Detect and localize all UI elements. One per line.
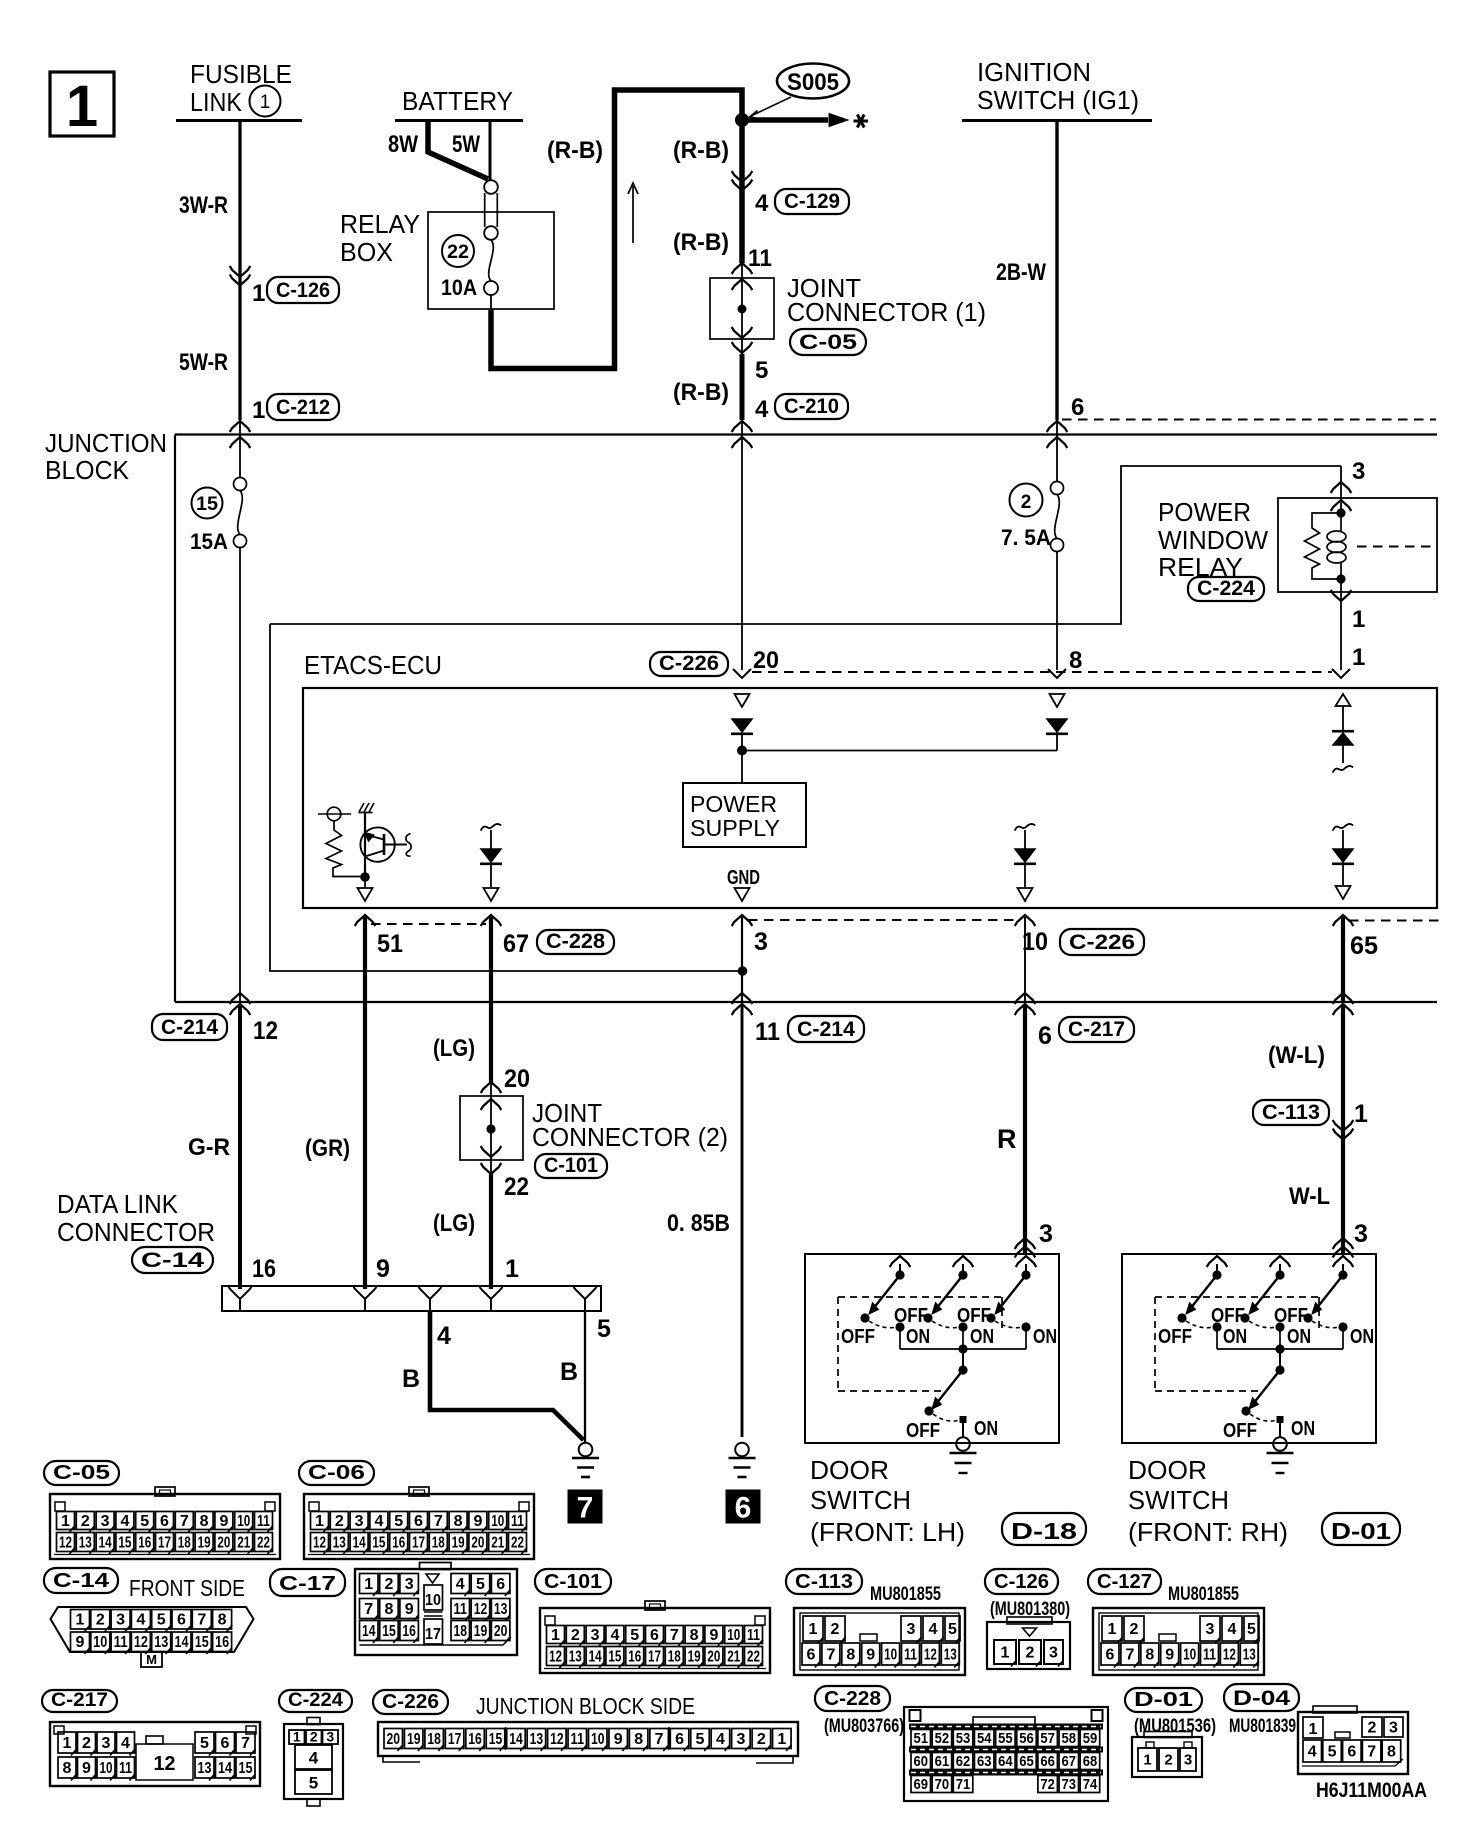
svg-text:H6J11M00AA: H6J11M00AA xyxy=(1316,1779,1427,1802)
svg-text:(LG): (LG) xyxy=(433,1035,475,1062)
ECU break squiggle pin65 lower xyxy=(1333,824,1353,830)
dashed junction boundary top xyxy=(1062,419,1436,421)
ECU output triangle pin51 xyxy=(358,888,373,901)
svg-text:1: 1 xyxy=(364,1576,373,1593)
svg-text:1: 1 xyxy=(293,1729,301,1745)
svg-text:20: 20 xyxy=(707,1648,720,1665)
svg-text:15: 15 xyxy=(608,1648,621,1665)
svg-text:1: 1 xyxy=(66,74,98,139)
svg-text:71: 71 xyxy=(956,1776,971,1793)
svg-text:12: 12 xyxy=(313,1534,326,1551)
wire W-L thick xyxy=(1341,1004,1345,1253)
svg-text:DATA LINK: DATA LINK xyxy=(57,1191,178,1219)
connector body C-228 xyxy=(904,1707,1108,1801)
svg-text:51: 51 xyxy=(914,1730,929,1747)
svg-text:8: 8 xyxy=(846,1646,855,1663)
svg-text:OFF: OFF xyxy=(1158,1326,1192,1348)
svg-text:M: M xyxy=(146,1652,157,1667)
svg-text:(GR): (GR) xyxy=(305,1135,350,1162)
connector body C-113 13pin xyxy=(794,1608,965,1675)
svg-text:14: 14 xyxy=(589,1648,602,1665)
ECU diode pin20 xyxy=(732,719,752,732)
svg-text:56: 56 xyxy=(1019,1730,1034,1747)
relay pin 1 chevron xyxy=(1331,590,1352,601)
svg-text:11: 11 xyxy=(454,1601,468,1618)
wire from fuse 15 down xyxy=(239,548,241,1003)
svg-text:64: 64 xyxy=(998,1753,1013,1770)
svg-text:OFF: OFF xyxy=(841,1326,875,1348)
connector body C-05 22pin xyxy=(50,1494,280,1559)
svg-text:C-212: C-212 xyxy=(276,396,330,419)
svg-text:15: 15 xyxy=(489,1731,503,1748)
svg-text:C-226: C-226 xyxy=(1069,931,1135,954)
svg-text:73: 73 xyxy=(1062,1776,1077,1793)
connector label C-226 bottom xyxy=(1060,929,1144,955)
svg-text:67: 67 xyxy=(503,930,529,958)
connector body C-217 xyxy=(50,1722,260,1786)
ECU resistor xyxy=(326,821,361,877)
svg-text:BATTERY: BATTERY xyxy=(402,88,513,116)
svg-text:S005: S005 xyxy=(787,69,839,96)
svg-text:C-214: C-214 xyxy=(797,1018,855,1041)
svg-text:8: 8 xyxy=(200,1513,209,1530)
svg-text:4: 4 xyxy=(716,1731,725,1748)
svg-text:5: 5 xyxy=(476,1576,485,1593)
joint connector 2 box xyxy=(460,1096,523,1160)
connector label C-05 table xyxy=(44,1461,119,1485)
svg-text:11: 11 xyxy=(119,1760,132,1777)
svg-text:11: 11 xyxy=(257,1513,270,1530)
svg-text:11: 11 xyxy=(747,1627,760,1644)
svg-text:16: 16 xyxy=(138,1534,151,1551)
svg-text:1: 1 xyxy=(1352,606,1365,633)
svg-text:2: 2 xyxy=(831,1621,840,1638)
connector label C-126 table xyxy=(985,1569,1058,1594)
svg-text:69: 69 xyxy=(914,1776,929,1793)
svg-text:C-226: C-226 xyxy=(382,1691,439,1713)
svg-text:9: 9 xyxy=(219,1513,228,1530)
wire 3 upper xyxy=(741,917,743,1002)
svg-text:11: 11 xyxy=(571,1731,585,1748)
svg-text:OFF: OFF xyxy=(1211,1305,1245,1327)
svg-text:20: 20 xyxy=(504,1065,530,1093)
svg-text:OFF: OFF xyxy=(894,1305,928,1327)
svg-text:1: 1 xyxy=(1108,1621,1117,1638)
svg-text:16: 16 xyxy=(628,1648,641,1665)
svg-text:6: 6 xyxy=(735,1492,752,1525)
fusible link cartridge xyxy=(484,180,498,194)
svg-text:5: 5 xyxy=(1247,1621,1256,1638)
connector body C-226 xyxy=(378,1722,798,1756)
fusible link number circle 1 xyxy=(250,86,281,117)
svg-text:B: B xyxy=(402,1365,420,1393)
svg-text:22: 22 xyxy=(257,1534,270,1551)
svg-text:65: 65 xyxy=(1019,1753,1034,1770)
connector body C-127 13pin xyxy=(1093,1608,1264,1675)
DLC pin Y 5 xyxy=(574,1287,597,1311)
wire R thick xyxy=(1023,1004,1027,1253)
svg-text:68: 68 xyxy=(1083,1753,1098,1770)
svg-text:8: 8 xyxy=(384,1601,393,1618)
svg-text:RELAY: RELAY xyxy=(340,211,420,239)
connector body C-17 xyxy=(355,1569,517,1655)
svg-text:21: 21 xyxy=(491,1534,504,1551)
connector label D-04 table xyxy=(1224,1684,1299,1711)
svg-text:8W: 8W xyxy=(388,131,418,158)
connector label C-212 xyxy=(267,394,339,420)
ECU diode pin10 xyxy=(1015,849,1035,862)
svg-text:65: 65 xyxy=(1350,932,1378,960)
svg-text:3: 3 xyxy=(736,1731,745,1748)
svg-text:9: 9 xyxy=(866,1646,875,1663)
svg-text:5: 5 xyxy=(140,1513,149,1530)
svg-text:C-226: C-226 xyxy=(659,652,719,675)
svg-text:16: 16 xyxy=(252,1255,276,1283)
svg-text:2: 2 xyxy=(1021,492,1032,513)
svg-text:(FRONT: RH): (FRONT: RH) xyxy=(1128,1517,1288,1547)
svg-text:5W-R: 5W-R xyxy=(179,349,228,376)
svg-text:4: 4 xyxy=(755,396,769,423)
svg-text:(R-B): (R-B) xyxy=(673,379,729,406)
section marker 7 xyxy=(568,1490,602,1523)
svg-text:BOX: BOX xyxy=(340,239,393,267)
svg-text:7: 7 xyxy=(197,1612,206,1629)
ignition bus bar xyxy=(962,119,1152,122)
door switch RH pole 1 xyxy=(1207,1256,1228,1267)
svg-text:67: 67 xyxy=(1062,1753,1077,1770)
door switch LH lower contact xyxy=(962,1349,964,1370)
wire B thick from pin4 xyxy=(430,1311,584,1440)
relay resistor xyxy=(1305,513,1342,579)
svg-text:7: 7 xyxy=(364,1601,373,1618)
svg-text:2: 2 xyxy=(335,1513,344,1530)
door switch RH common bus xyxy=(1216,1327,1218,1349)
svg-text:70: 70 xyxy=(935,1776,950,1793)
svg-text:16: 16 xyxy=(392,1534,405,1551)
wire relay pin1 down to ECU xyxy=(1340,579,1342,670)
svg-text:9: 9 xyxy=(473,1513,482,1530)
svg-text:11: 11 xyxy=(904,1646,917,1663)
svg-text:10: 10 xyxy=(100,1760,113,1777)
svg-text:1: 1 xyxy=(1001,1644,1010,1661)
svg-text:6: 6 xyxy=(1038,1022,1052,1050)
battery bus bar xyxy=(395,119,523,122)
svg-text:ON: ON xyxy=(1033,1326,1057,1348)
svg-text:C-228: C-228 xyxy=(546,930,605,953)
svg-text:14: 14 xyxy=(99,1534,112,1551)
svg-text:13: 13 xyxy=(494,1601,508,1618)
fuse 22 element xyxy=(489,240,494,281)
svg-text:22: 22 xyxy=(747,1648,760,1665)
door switch box RH xyxy=(1122,1254,1376,1443)
svg-text:ON: ON xyxy=(970,1326,994,1348)
svg-text:7: 7 xyxy=(434,1513,443,1530)
ECU diode pin67 xyxy=(481,849,501,862)
svg-text:8: 8 xyxy=(1069,647,1082,674)
svg-text:7: 7 xyxy=(241,1735,250,1752)
ECU diode pin65 up xyxy=(1332,730,1354,733)
svg-text:15: 15 xyxy=(239,1760,253,1777)
svg-text:C-17: C-17 xyxy=(279,1573,336,1595)
svg-text:15: 15 xyxy=(372,1534,385,1551)
wire inside junction from ignition xyxy=(1056,437,1058,482)
connector body D-04 xyxy=(1298,1712,1408,1774)
fusible link bus bar xyxy=(176,119,302,122)
connector label C-113 inline xyxy=(1253,1100,1329,1125)
svg-text:22: 22 xyxy=(504,1173,529,1201)
svg-text:ON: ON xyxy=(906,1326,930,1348)
svg-text:1: 1 xyxy=(252,280,265,307)
dashed connector line C-226 row xyxy=(752,671,1332,673)
svg-text:POWER: POWER xyxy=(1158,499,1251,527)
ECU transistor emitter dot xyxy=(360,872,370,882)
svg-text:2: 2 xyxy=(82,1735,91,1752)
door switch RH pole 3 xyxy=(1333,1256,1354,1267)
fuse 15 element xyxy=(234,478,247,491)
svg-text:4: 4 xyxy=(136,1612,145,1629)
door switch LH pole 1 xyxy=(890,1256,911,1267)
svg-text:C-14: C-14 xyxy=(141,1249,204,1272)
svg-text:5: 5 xyxy=(948,1621,957,1638)
svg-text:3: 3 xyxy=(116,1612,125,1629)
svg-text:3: 3 xyxy=(1354,1220,1368,1248)
svg-text:10: 10 xyxy=(237,1513,250,1530)
svg-text:17: 17 xyxy=(648,1648,661,1665)
svg-text:ON: ON xyxy=(1223,1326,1247,1348)
connector label C-210 xyxy=(775,394,848,419)
data link connector box xyxy=(222,1286,601,1311)
svg-text:1: 1 xyxy=(777,1731,786,1748)
svg-text:66: 66 xyxy=(1040,1753,1055,1770)
svg-text:13: 13 xyxy=(198,1760,212,1777)
svg-text:10: 10 xyxy=(425,1592,441,1609)
ECU input triangle pin65 up xyxy=(1336,694,1351,706)
asterisk marker xyxy=(854,120,869,123)
junction block outline xyxy=(175,433,1437,435)
svg-text:C-05: C-05 xyxy=(799,331,857,354)
connector label C-226 table xyxy=(373,1690,448,1714)
svg-text:74: 74 xyxy=(1083,1776,1098,1793)
svg-text:8: 8 xyxy=(1387,1743,1396,1760)
svg-text:61: 61 xyxy=(935,1753,950,1770)
svg-text:4: 4 xyxy=(374,1513,383,1530)
wire B from pin5 xyxy=(584,1311,586,1443)
relay internal top dot xyxy=(1336,508,1345,517)
svg-text:6: 6 xyxy=(1106,1646,1115,1663)
svg-text:12: 12 xyxy=(59,1534,72,1551)
svg-text:1: 1 xyxy=(252,397,265,424)
svg-text:C-214: C-214 xyxy=(161,1016,218,1039)
svg-text:4: 4 xyxy=(456,1576,465,1593)
svg-text:1: 1 xyxy=(809,1621,818,1638)
svg-text:2: 2 xyxy=(96,1612,105,1629)
ECU diode pin8 xyxy=(1047,719,1067,732)
svg-text:C-14: C-14 xyxy=(53,1570,110,1592)
svg-text:9: 9 xyxy=(405,1601,414,1618)
svg-text:3: 3 xyxy=(1039,1220,1053,1248)
svg-text:21: 21 xyxy=(727,1648,740,1665)
svg-text:15: 15 xyxy=(195,1634,209,1651)
svg-text:G-R: G-R xyxy=(188,1134,230,1161)
svg-text:0. 85B: 0. 85B xyxy=(667,1210,730,1237)
section marker 6 xyxy=(726,1490,760,1523)
svg-text:5: 5 xyxy=(200,1735,209,1752)
fuse 22 circle label xyxy=(442,235,474,267)
wire inside junction from C-212 xyxy=(239,437,241,478)
svg-text:14: 14 xyxy=(175,1634,189,1651)
svg-text:8: 8 xyxy=(218,1612,227,1629)
svg-text:13: 13 xyxy=(79,1534,92,1551)
svg-text:13: 13 xyxy=(154,1634,168,1651)
joint connector 1 box xyxy=(710,278,774,339)
svg-text:12: 12 xyxy=(924,1646,937,1663)
dashed C-228 row left xyxy=(371,923,486,925)
svg-text:15: 15 xyxy=(382,1623,396,1640)
svg-text:ON: ON xyxy=(974,1418,998,1440)
ground symbol DLC xyxy=(579,1443,593,1457)
connector label C-126 xyxy=(267,277,339,303)
svg-text:9: 9 xyxy=(76,1634,85,1651)
relay internal bottom dot xyxy=(1336,574,1345,583)
svg-text:D-18: D-18 xyxy=(1011,1518,1077,1544)
svg-text:1: 1 xyxy=(1354,1100,1368,1128)
svg-text:1: 1 xyxy=(551,1627,560,1644)
svg-text:8: 8 xyxy=(634,1731,643,1748)
svg-text:5: 5 xyxy=(157,1612,166,1629)
svg-text:(R-B): (R-B) xyxy=(673,229,729,256)
svg-text:(MU803766): (MU803766) xyxy=(824,1716,904,1737)
svg-text:DOOR: DOOR xyxy=(1128,1455,1207,1485)
connector label C-101 table xyxy=(535,1569,611,1594)
relay coil dashed link xyxy=(1357,546,1436,548)
svg-text:JUNCTION BLOCK SIDE: JUNCTION BLOCK SIDE xyxy=(476,1693,695,1719)
S005 ellipse tag xyxy=(777,64,849,99)
wire 67 thick upper xyxy=(489,917,493,1084)
svg-text:2: 2 xyxy=(1164,1751,1172,1768)
svg-text:2: 2 xyxy=(1368,1719,1377,1736)
svg-text:1: 1 xyxy=(260,92,271,113)
connector label C-113 table xyxy=(786,1569,862,1594)
svg-text:18: 18 xyxy=(454,1623,468,1640)
door switch LH ground xyxy=(956,1437,970,1451)
svg-text:3: 3 xyxy=(102,1735,111,1752)
svg-text:10: 10 xyxy=(1183,1646,1196,1663)
svg-text:4: 4 xyxy=(120,1513,129,1530)
svg-text:15A: 15A xyxy=(190,529,228,554)
svg-text:C-210: C-210 xyxy=(784,395,839,418)
svg-text:3: 3 xyxy=(907,1621,916,1638)
svg-text:17: 17 xyxy=(412,1534,425,1551)
connector label C-101 inline xyxy=(535,1154,607,1178)
connector body C-14 xyxy=(51,1607,254,1652)
svg-text:52: 52 xyxy=(935,1730,950,1747)
junction internal wire to power window relay xyxy=(270,466,1341,624)
thick branch arrow to other page xyxy=(742,117,828,123)
door switch LH pole 3 xyxy=(1016,1256,1037,1267)
svg-text:7: 7 xyxy=(180,1513,189,1530)
svg-text:5: 5 xyxy=(696,1731,705,1748)
svg-text:9: 9 xyxy=(614,1731,623,1748)
svg-text:4: 4 xyxy=(121,1735,130,1752)
wire 67 thick lower xyxy=(489,1172,493,1289)
svg-text:5: 5 xyxy=(630,1627,639,1644)
S005 pointer arrow xyxy=(751,97,791,116)
connector label C-129 xyxy=(775,189,849,214)
svg-text:C-126: C-126 xyxy=(276,279,330,302)
svg-text:3: 3 xyxy=(1049,1644,1058,1661)
svg-text:C-06: C-06 xyxy=(308,1462,365,1484)
svg-text:ETACS-ECU: ETACS-ECU xyxy=(304,652,442,680)
svg-text:WINDOW: WINDOW xyxy=(1158,527,1268,555)
svg-text:55: 55 xyxy=(998,1730,1013,1747)
svg-text:22: 22 xyxy=(511,1534,524,1551)
fuse 2 circle label xyxy=(1010,484,1043,517)
svg-text:19: 19 xyxy=(452,1534,465,1551)
svg-text:C-101: C-101 xyxy=(544,1154,598,1177)
svg-text:DOOR: DOOR xyxy=(810,1455,889,1485)
svg-text:10: 10 xyxy=(884,1646,897,1663)
connector label C-14 table xyxy=(44,1568,118,1593)
svg-text:9: 9 xyxy=(709,1627,718,1644)
door switch LH dashed gang box xyxy=(838,1296,1002,1298)
svg-text:9: 9 xyxy=(82,1760,91,1777)
svg-text:4: 4 xyxy=(309,1749,319,1768)
svg-text:3: 3 xyxy=(591,1627,600,1644)
inline connector chevrons C-113 xyxy=(1333,1120,1354,1131)
svg-text:C-05: C-05 xyxy=(53,1462,110,1484)
connector label C-226 top xyxy=(650,652,728,676)
svg-text:57: 57 xyxy=(1040,1730,1055,1747)
ECU hatch symbol xyxy=(359,812,373,814)
svg-text:17: 17 xyxy=(425,1626,441,1643)
wire 8W xyxy=(428,121,488,179)
svg-text:D-04: D-04 xyxy=(1233,1687,1290,1710)
door switch RH ground xyxy=(1273,1437,1287,1451)
svg-text:72: 72 xyxy=(1040,1776,1055,1793)
svg-text:8: 8 xyxy=(63,1760,72,1777)
door switch LH pole 2 xyxy=(953,1256,974,1267)
connector label C-14 inline xyxy=(132,1247,213,1273)
GND output triangle xyxy=(735,888,750,901)
svg-text:16: 16 xyxy=(468,1731,482,1748)
svg-text:3: 3 xyxy=(355,1513,364,1530)
svg-text:19: 19 xyxy=(407,1731,421,1748)
ECU input triangle pin8 xyxy=(1050,694,1065,707)
svg-text:19: 19 xyxy=(474,1623,488,1640)
DLC pin Y 1 xyxy=(480,1287,503,1311)
svg-text:3: 3 xyxy=(1352,458,1365,485)
relay coil xyxy=(1340,513,1342,531)
power window relay box xyxy=(1278,498,1437,592)
svg-text:17: 17 xyxy=(158,1534,171,1551)
svg-text:6: 6 xyxy=(177,1612,186,1629)
connector label C-214 left xyxy=(152,1014,227,1040)
door switch RH pole 2 xyxy=(1270,1256,1291,1267)
ECU input triangle pin20 xyxy=(735,694,750,707)
svg-text:7: 7 xyxy=(577,1492,594,1525)
svg-text:10: 10 xyxy=(591,1731,605,1748)
svg-text:ON: ON xyxy=(1350,1326,1374,1348)
svg-text:15: 15 xyxy=(118,1534,131,1551)
svg-text:5W: 5W xyxy=(452,131,480,158)
connector label C-05 xyxy=(790,329,866,355)
ECU wire pin20 to power supply xyxy=(741,734,743,783)
fuse 15 circle label xyxy=(192,488,223,519)
svg-text:POWER: POWER xyxy=(690,791,777,817)
svg-text:22: 22 xyxy=(447,242,469,263)
wire 2B-W xyxy=(1055,121,1058,420)
wire from fuse 2 down to ECU pin 8 xyxy=(1056,552,1058,671)
